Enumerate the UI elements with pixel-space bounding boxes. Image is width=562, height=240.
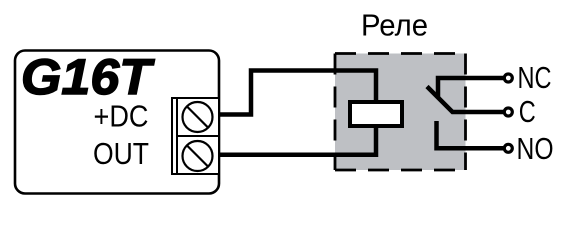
screw terminal OUT <box>183 141 213 171</box>
screw terminal +DC <box>183 102 213 132</box>
relay box dashed border left <box>334 54 337 171</box>
relay coil K1 <box>350 102 402 126</box>
svg-text:NC: NC <box>518 60 552 95</box>
terminal C <box>504 108 512 116</box>
svg-text:OUT: OUT <box>93 136 149 171</box>
svg-text:G16T: G16T <box>21 49 156 105</box>
svg-text:Реле: Реле <box>361 8 428 43</box>
terminal NC <box>504 74 512 82</box>
terminal NO <box>504 144 512 152</box>
relay box dashed border right <box>464 54 467 171</box>
svg-text:NO: NO <box>517 131 554 166</box>
svg-text:+DC: +DC <box>94 99 149 134</box>
svg-text:C: C <box>519 94 536 129</box>
switch common arm C <box>427 87 504 113</box>
relay box (Реле) gray body <box>335 54 466 171</box>
device G16T enclosure <box>15 51 219 194</box>
wire +DC to coil top <box>218 71 376 115</box>
terminal block TB1 body <box>172 98 219 174</box>
wire OUT to coil bottom <box>218 124 376 155</box>
relay box dashed border top <box>335 52 466 55</box>
switch NC fixed contact <box>438 78 504 97</box>
switch NO fixed contact <box>437 121 505 148</box>
relay box dashed border bottom <box>335 169 466 172</box>
